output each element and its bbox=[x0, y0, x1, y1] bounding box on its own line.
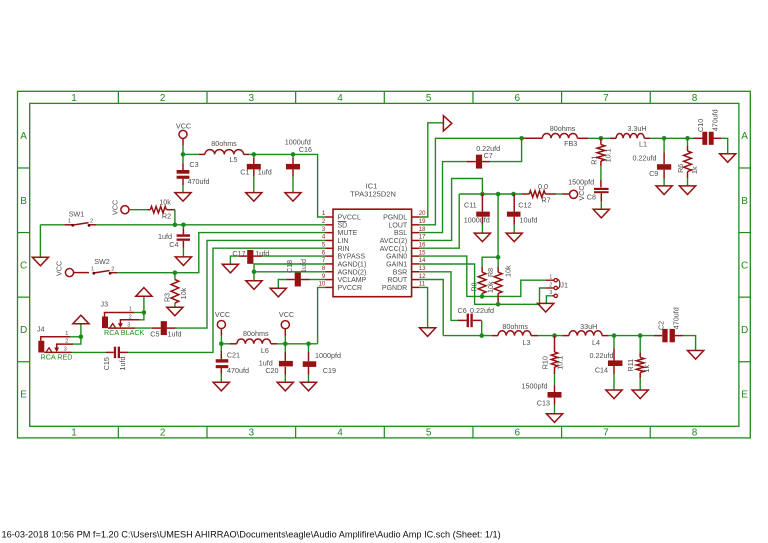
capacitor C3 bbox=[177, 154, 210, 192]
wire IC pin15 GAIN0 row bbox=[419, 256, 545, 296]
wire IC pin20 to output arrow bbox=[419, 123, 443, 217]
svg-text:7: 7 bbox=[603, 93, 609, 104]
svg-text:PVCCL: PVCCL bbox=[338, 215, 361, 222]
wire IC pin9 to C18 bbox=[310, 279, 326, 281]
inductor L6 bbox=[230, 329, 277, 355]
svg-text:VCC: VCC bbox=[176, 121, 191, 130]
svg-text:R10: R10 bbox=[541, 356, 550, 369]
svg-text:1: 1 bbox=[68, 219, 71, 225]
svg-text:C5: C5 bbox=[150, 329, 159, 338]
svg-text:80ohms: 80ohms bbox=[211, 139, 237, 148]
connector J4 bbox=[37, 325, 73, 353]
svg-text:2: 2 bbox=[160, 428, 166, 439]
wire FB3 to C10 bbox=[588, 137, 694, 139]
svg-text:1k: 1k bbox=[642, 365, 651, 373]
ground below C4 bbox=[175, 257, 191, 266]
wire IC pin17 AVCC(2) bbox=[419, 179, 482, 241]
svg-text:1ufd: 1ufd bbox=[118, 357, 127, 371]
resistor R10 10.1 bbox=[541, 336, 565, 386]
node junction R8/GAIN1 bbox=[496, 302, 501, 307]
wire C7 to LOUT junction bbox=[490, 138, 521, 161]
svg-text:LIN: LIN bbox=[338, 238, 349, 245]
capacitor C16 bbox=[285, 137, 312, 192]
node junction J3 gnd bbox=[142, 310, 147, 315]
resistor R8 10k bbox=[486, 257, 512, 293]
wire C2 to ground bbox=[683, 336, 696, 351]
capacitor C13 1500pfd bbox=[522, 382, 562, 414]
svg-text:C10: C10 bbox=[696, 119, 705, 132]
svg-text:0.22ufd: 0.22ufd bbox=[590, 351, 614, 360]
node junction R11 bbox=[638, 333, 643, 338]
status bar text bbox=[2, 529, 501, 539]
svg-text:2: 2 bbox=[129, 314, 132, 320]
wire R8 bottom bbox=[497, 293, 499, 304]
power symbol VCC (R2) bbox=[110, 200, 129, 215]
power symbol VCC (top left) bbox=[176, 121, 191, 145]
svg-text:10k: 10k bbox=[503, 265, 512, 277]
wire L3 to C2 bbox=[538, 335, 654, 337]
capacitor C17 1ufd bbox=[232, 249, 269, 264]
svg-text:C19: C19 bbox=[323, 366, 336, 375]
wire C5 to IC pin 4 LIN bbox=[176, 240, 326, 328]
wire bottom VCC rail bbox=[221, 343, 317, 345]
ground above J4 (inverted) bbox=[73, 315, 89, 324]
node junction R8/R9 top bbox=[496, 255, 501, 260]
svg-text:D: D bbox=[20, 325, 27, 336]
wire C6 to ROUT row bbox=[481, 320, 483, 335]
wire R2 down to SW1 row bbox=[174, 210, 176, 225]
capacitor C1 bbox=[240, 154, 272, 192]
wire J4 pin3 to C15 bbox=[72, 351, 107, 353]
svg-text:C6: C6 bbox=[458, 306, 467, 315]
svg-text:RCA RED: RCA RED bbox=[41, 353, 73, 362]
svg-text:1ufd: 1ufd bbox=[258, 168, 272, 177]
svg-text:ROUT: ROUT bbox=[387, 277, 408, 284]
capacitor C2 470ufd bbox=[654, 307, 683, 342]
svg-text:470ufd: 470ufd bbox=[188, 177, 210, 186]
svg-text:C: C bbox=[20, 260, 27, 271]
ground below C3 bbox=[175, 193, 191, 202]
wire R1 to C8 bbox=[600, 166, 602, 187]
svg-text:AGND(1): AGND(1) bbox=[338, 261, 367, 268]
ground below C2 wire bbox=[688, 351, 704, 360]
svg-text:AVCC(2): AVCC(2) bbox=[380, 238, 407, 245]
ground below C1 bbox=[246, 193, 262, 202]
svg-text:1: 1 bbox=[71, 428, 77, 439]
ground below pin11 bbox=[420, 328, 436, 337]
svg-text:2: 2 bbox=[160, 93, 166, 104]
capacitor C7 0.22ufd bbox=[467, 144, 500, 168]
capacitor C10 470ufd bbox=[694, 109, 721, 145]
wire SW1 row to IC pin 2 bbox=[40, 224, 325, 226]
svg-text:1: 1 bbox=[549, 275, 552, 281]
svg-text:5: 5 bbox=[426, 93, 432, 104]
svg-text:C16: C16 bbox=[299, 145, 312, 154]
svg-text:SW2: SW2 bbox=[94, 257, 110, 266]
svg-text:2: 2 bbox=[111, 267, 114, 273]
capacitor C8 1500pfd bbox=[568, 177, 609, 209]
node junction R1 bbox=[599, 136, 604, 141]
svg-text:L3: L3 bbox=[523, 338, 531, 347]
ground below R6 bbox=[679, 186, 695, 195]
node junction C19 bbox=[306, 342, 311, 347]
svg-text:C8: C8 bbox=[587, 193, 596, 202]
power symbol VCC (SW2) bbox=[55, 261, 74, 277]
wire top rail to IC pin 1 bbox=[183, 154, 326, 217]
svg-text:10.1: 10.1 bbox=[556, 356, 565, 370]
svg-text:10ufd: 10ufd bbox=[520, 216, 538, 225]
svg-text:A: A bbox=[20, 131, 27, 142]
wire C10 to ground bbox=[721, 138, 728, 153]
svg-text:LOUT: LOUT bbox=[389, 222, 408, 229]
svg-text:C3: C3 bbox=[189, 160, 198, 169]
svg-text:SW1: SW1 bbox=[69, 210, 85, 219]
svg-text:GAIN1: GAIN1 bbox=[386, 261, 407, 268]
svg-text:10k: 10k bbox=[159, 198, 171, 207]
switch SW1 bbox=[64, 210, 96, 227]
node junction SW2/R3 bbox=[173, 270, 178, 275]
svg-text:A: A bbox=[741, 131, 748, 142]
resistor R1 10.1 bbox=[589, 138, 612, 166]
node junction C20 bbox=[283, 342, 288, 347]
capacitor C5 1ufd bbox=[150, 321, 181, 338]
inductor L4 33uH bbox=[563, 322, 608, 347]
wire IC pin13 to C6 bbox=[419, 272, 458, 321]
svg-text:VCC: VCC bbox=[279, 310, 294, 319]
svg-text:AGND(2): AGND(2) bbox=[338, 269, 367, 276]
node junction AGND bbox=[252, 270, 257, 275]
svg-text:B: B bbox=[20, 196, 27, 207]
node junction C9 bbox=[662, 136, 667, 141]
svg-text:3: 3 bbox=[249, 428, 255, 439]
ground below J1 bbox=[538, 303, 554, 312]
wire J4 pin1 to ground junction bbox=[70, 336, 81, 338]
node junction C11 bbox=[480, 192, 485, 197]
svg-text:10k: 10k bbox=[179, 287, 188, 299]
svg-text:BSR: BSR bbox=[393, 269, 407, 276]
node junction R6 bbox=[685, 136, 690, 141]
svg-text:J4: J4 bbox=[37, 325, 45, 334]
svg-text:R8: R8 bbox=[486, 268, 495, 277]
op-amp IC1 TPA3125D2N bbox=[319, 181, 427, 296]
svg-text:470ufd: 470ufd bbox=[227, 366, 249, 375]
svg-text:80ohms: 80ohms bbox=[502, 322, 528, 331]
node junction R10 bbox=[552, 333, 557, 338]
node junction C16 bbox=[291, 152, 296, 157]
svg-text:R3: R3 bbox=[162, 293, 171, 302]
svg-text:VCC: VCC bbox=[55, 261, 64, 276]
svg-text:J1: J1 bbox=[560, 281, 568, 290]
svg-text:C21: C21 bbox=[227, 351, 240, 360]
power symbol VCC (C21) bbox=[215, 310, 230, 344]
wire J3 gnd up bbox=[143, 296, 145, 312]
svg-text:2: 2 bbox=[90, 219, 93, 225]
wire J4 gnd up bbox=[80, 324, 82, 337]
svg-text:470ufd: 470ufd bbox=[711, 109, 720, 131]
node junction C4 bbox=[181, 223, 186, 228]
ground below C16 bbox=[285, 193, 301, 202]
svg-text:0.22ufd: 0.22ufd bbox=[470, 306, 494, 315]
wire AGND to ground bbox=[253, 272, 255, 281]
ground below C19 bbox=[300, 382, 316, 391]
label RCA BLACK bbox=[104, 328, 145, 337]
svg-text:VCC: VCC bbox=[110, 200, 119, 215]
svg-text:BYPASS: BYPASS bbox=[338, 254, 366, 261]
wire rail down to R8/R9 bbox=[497, 194, 499, 257]
svg-text:1500pfd: 1500pfd bbox=[568, 177, 594, 186]
capacitor C20 1ufd bbox=[259, 344, 293, 383]
svg-text:3.3uH: 3.3uH bbox=[627, 124, 646, 133]
svg-text:1ufd: 1ufd bbox=[168, 330, 182, 339]
connector J3 bbox=[101, 300, 140, 329]
ground above J3 (inverted) bbox=[136, 288, 152, 297]
wire IC pin8 AGND(2) bbox=[254, 271, 326, 273]
resistor R6 1k bbox=[676, 138, 699, 186]
node junction R9/GAIN0 bbox=[480, 294, 485, 299]
frame border with grid labels bbox=[18, 91, 751, 438]
resistor R3 10k bbox=[162, 273, 188, 308]
svg-text:B: B bbox=[741, 196, 748, 207]
svg-text:1000pfd: 1000pfd bbox=[315, 351, 341, 360]
inductor FB3 80ohms bbox=[524, 124, 589, 148]
svg-text:C18: C18 bbox=[285, 260, 294, 273]
capacitor C14 0.22ufd bbox=[590, 336, 623, 390]
capacitor C12 10ufd bbox=[507, 194, 538, 233]
svg-text:C20: C20 bbox=[265, 366, 278, 375]
wire C18 to ground bbox=[278, 280, 286, 289]
label RCA RED bbox=[41, 353, 73, 362]
svg-text:L5: L5 bbox=[230, 155, 238, 164]
power symbol VCC (R7) bbox=[570, 185, 586, 200]
svg-text:14: 14 bbox=[419, 258, 426, 264]
svg-text:0.22ufd: 0.22ufd bbox=[633, 153, 657, 162]
ground below C11 bbox=[474, 233, 490, 242]
svg-text:C14: C14 bbox=[595, 366, 608, 375]
svg-text:C2: C2 bbox=[656, 321, 665, 330]
capacitor C9 0.22ufd bbox=[633, 138, 672, 186]
svg-text:RIN: RIN bbox=[338, 246, 350, 253]
svg-text:C: C bbox=[741, 260, 748, 271]
capacitor C19 1000pfd bbox=[303, 344, 341, 383]
ground below SW1 wire bbox=[32, 257, 48, 266]
svg-text:C1: C1 bbox=[240, 168, 249, 177]
svg-text:1: 1 bbox=[91, 267, 94, 273]
wire R9 bottom bbox=[481, 293, 483, 296]
wire AVCC rail bbox=[459, 193, 521, 195]
ground below C14 bbox=[606, 390, 622, 399]
ground below C8 bbox=[593, 209, 609, 218]
node junction R8R9 rail bbox=[496, 192, 501, 197]
wire J3 pin1 to ground junction bbox=[134, 312, 144, 314]
svg-text:VCC: VCC bbox=[577, 185, 586, 200]
svg-text:R6: R6 bbox=[676, 164, 685, 173]
node junction C1 bbox=[252, 152, 257, 157]
svg-text:4: 4 bbox=[337, 428, 343, 439]
capacitor C11 1000ufd bbox=[464, 194, 490, 233]
wire C17 to ground bbox=[230, 256, 238, 264]
svg-text:13: 13 bbox=[419, 266, 426, 272]
wire SW2 to IC pin 3 MUTE bbox=[117, 233, 326, 273]
node junction VCC/C3 bbox=[181, 152, 186, 157]
svg-text:C4: C4 bbox=[169, 240, 178, 249]
ground below C21 bbox=[213, 382, 229, 391]
wire IC pin14 GAIN1 row bbox=[419, 264, 545, 304]
svg-text:1ufd: 1ufd bbox=[255, 249, 269, 258]
ground below AGND bbox=[246, 281, 262, 290]
svg-text:16-03-2018 10:56 PM f=1.20 C: 16-03-2018 10:56 PM f=1.20 C:\Users\UMES… bbox=[2, 529, 501, 539]
node junction C6/ROUT bbox=[479, 333, 484, 338]
resistor R2 10k bbox=[129, 198, 175, 221]
svg-text:C7: C7 bbox=[484, 151, 493, 160]
output arrow flag bbox=[443, 116, 451, 132]
svg-text:R7: R7 bbox=[541, 195, 550, 204]
svg-text:BSL: BSL bbox=[394, 230, 407, 237]
capacitor C15 1ufd bbox=[102, 347, 128, 371]
svg-text:PGNDL: PGNDL bbox=[383, 215, 407, 222]
ground below C13 bbox=[546, 414, 562, 423]
svg-text:6: 6 bbox=[514, 428, 520, 439]
svg-text:VCC: VCC bbox=[215, 310, 230, 319]
svg-text:R11: R11 bbox=[626, 359, 635, 372]
svg-text:11: 11 bbox=[419, 282, 426, 288]
inductor L1 3.3uH bbox=[610, 124, 650, 148]
svg-text:2: 2 bbox=[549, 282, 552, 288]
svg-text:L4: L4 bbox=[592, 338, 600, 347]
svg-text:470ufd: 470ufd bbox=[672, 307, 681, 329]
svg-text:2: 2 bbox=[65, 339, 68, 345]
svg-text:SD: SD bbox=[338, 222, 348, 229]
svg-text:1ufd: 1ufd bbox=[299, 259, 308, 273]
wire SW1 left to ground bbox=[39, 225, 41, 257]
ground below C12 bbox=[506, 233, 522, 242]
inductor L5 bbox=[199, 139, 249, 164]
svg-text:MUTE: MUTE bbox=[338, 230, 358, 237]
svg-text:1: 1 bbox=[129, 307, 132, 313]
svg-text:80ohms: 80ohms bbox=[550, 124, 576, 133]
inductor L3 80ohms bbox=[492, 322, 538, 347]
svg-text:3: 3 bbox=[249, 93, 255, 104]
wire J3 pin3 to C5 bbox=[135, 327, 152, 329]
ground below R3 bbox=[167, 307, 183, 316]
wire J4 pin2 up bbox=[73, 337, 81, 344]
node junction C7/FB3 bbox=[519, 136, 524, 141]
capacitor C4 bbox=[158, 225, 190, 257]
svg-text:C15: C15 bbox=[102, 357, 111, 370]
wire C15 to IC pin 5 RIN bbox=[128, 248, 326, 352]
svg-text:TPA3125D2N: TPA3125D2N bbox=[350, 190, 396, 199]
resistor R11 1k bbox=[626, 336, 651, 390]
ground below R11 bbox=[632, 390, 648, 399]
wire VCC to rail bbox=[182, 145, 184, 154]
wire R9 top bbox=[482, 257, 498, 267]
svg-text:L6: L6 bbox=[261, 346, 269, 355]
svg-text:PVCCR: PVCCR bbox=[338, 285, 363, 292]
node junction C12 bbox=[511, 192, 516, 197]
capacitor C18 1ufd bbox=[285, 259, 310, 286]
wire J1 pin3 to ground bbox=[546, 296, 552, 304]
wire IC pin19 LOUT row bbox=[419, 138, 524, 225]
svg-text:C11: C11 bbox=[464, 200, 477, 209]
svg-text:GAIN0: GAIN0 bbox=[386, 254, 407, 261]
svg-text:1: 1 bbox=[71, 93, 77, 104]
svg-text:8: 8 bbox=[692, 93, 698, 104]
svg-text:C12: C12 bbox=[518, 200, 531, 209]
node junction R2/SW1 bbox=[173, 223, 178, 228]
node junction C21 bbox=[219, 342, 224, 347]
ground below C17 bbox=[222, 264, 238, 273]
svg-text:1: 1 bbox=[65, 331, 68, 337]
connector J1 bbox=[545, 275, 568, 298]
svg-text:J3: J3 bbox=[101, 300, 109, 309]
capacitor C21 470ufd bbox=[216, 344, 249, 383]
node junction C14 bbox=[612, 333, 617, 338]
svg-text:C9: C9 bbox=[649, 169, 658, 178]
svg-text:7: 7 bbox=[603, 428, 609, 439]
svg-text:4: 4 bbox=[337, 93, 343, 104]
ground below C9 bbox=[656, 186, 672, 195]
switch SW2 bbox=[74, 257, 117, 275]
wire IC pin16 AVCC(1) bbox=[419, 194, 459, 248]
svg-text:FB3: FB3 bbox=[564, 139, 577, 148]
node junction J4 gnd bbox=[79, 335, 84, 340]
svg-text:5: 5 bbox=[426, 428, 432, 439]
svg-text:AVCC(1): AVCC(1) bbox=[380, 246, 407, 253]
svg-text:1000ufd: 1000ufd bbox=[464, 216, 490, 225]
svg-text:33uH: 33uH bbox=[580, 322, 597, 331]
svg-text:10: 10 bbox=[319, 282, 326, 288]
wire J3 pin2 up bbox=[140, 313, 144, 320]
svg-text:D: D bbox=[741, 325, 748, 336]
svg-text:6: 6 bbox=[514, 93, 520, 104]
wire IC pin12 ROUT down bbox=[419, 280, 443, 336]
svg-text:E: E bbox=[20, 390, 27, 401]
ground below C10 wire bbox=[720, 154, 736, 163]
wire IC pin6 to C17 bbox=[262, 255, 326, 257]
svg-text:0.0: 0.0 bbox=[538, 182, 548, 191]
svg-text:R1: R1 bbox=[589, 155, 598, 164]
svg-text:L1: L1 bbox=[639, 139, 647, 148]
svg-text:R2: R2 bbox=[162, 211, 171, 220]
wire IC pin18 to C7 bbox=[419, 162, 467, 233]
svg-text:E: E bbox=[741, 390, 748, 401]
svg-text:PGNDR: PGNDR bbox=[382, 285, 407, 292]
svg-text:C13: C13 bbox=[537, 399, 550, 408]
resistor R9 10k bbox=[469, 267, 494, 293]
power symbol VCC (C20) bbox=[279, 310, 294, 344]
svg-text:1k: 1k bbox=[690, 166, 699, 174]
svg-text:80ohms: 80ohms bbox=[243, 329, 269, 338]
svg-text:8: 8 bbox=[692, 428, 698, 439]
svg-text:RCA BLACK: RCA BLACK bbox=[104, 328, 145, 337]
wire ROUT row bbox=[443, 335, 492, 337]
ground below C18 bbox=[270, 288, 286, 297]
svg-text:10.1: 10.1 bbox=[603, 148, 612, 162]
svg-text:VCLAMP: VCLAMP bbox=[338, 277, 367, 284]
wire IC pin10 to bottom rail bbox=[318, 287, 326, 343]
capacitor C6 0.22ufd bbox=[458, 306, 494, 327]
wire IC pin11 PGNDR to ground bbox=[419, 287, 427, 327]
wire IC pin7 AGND(1) bbox=[254, 264, 326, 272]
resistor R7 0.0 bbox=[522, 182, 570, 204]
ground below C20 bbox=[277, 382, 293, 391]
svg-text:1500pfd: 1500pfd bbox=[522, 382, 548, 391]
